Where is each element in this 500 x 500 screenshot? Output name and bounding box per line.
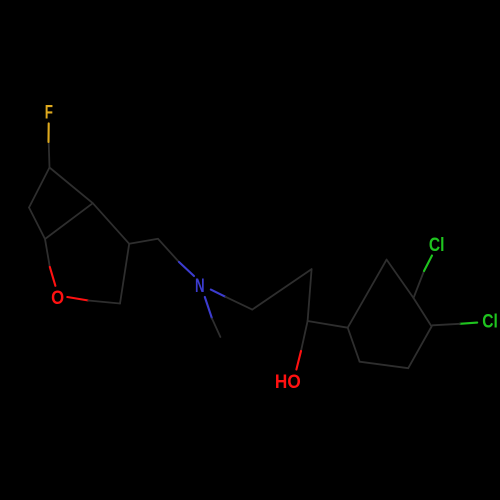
bond N-CH3 blue half	[205, 297, 212, 319]
bond Ccarbinol-OH dark half	[301, 321, 308, 351]
bond C7a-O red half	[50, 267, 56, 286]
bond CH2n-N dark half	[158, 239, 179, 262]
bond N-CH2a dark half	[226, 297, 253, 310]
bond V4-Cl1 green half	[424, 256, 432, 272]
bond Ccarbinol-OH red half	[296, 351, 301, 370]
svg-text:F: F	[45, 102, 53, 124]
ring R6-R1	[348, 328, 360, 362]
bond F-C5 gold half	[47, 123, 49, 142]
bond CH2n-N blue half	[179, 262, 194, 276]
bond O-C2 red half	[67, 297, 88, 301]
bond V5-Cl2 dark half	[433, 324, 460, 326]
bond C4-C3	[93, 203, 129, 244]
bond O-C2 dark half	[88, 301, 120, 304]
bond CH2b-Ccarbinol	[308, 269, 312, 321]
bond C5-C6	[29, 168, 50, 208]
svg-text:HO: HO	[275, 371, 301, 393]
bond C7a-O dark half	[45, 239, 50, 267]
bond C3-CH2n	[129, 239, 158, 244]
bond C6-C7a	[29, 208, 45, 240]
bond C3-C2	[120, 244, 129, 304]
svg-text:N: N	[195, 275, 205, 297]
svg-text:Cl: Cl	[429, 234, 445, 256]
bond C5-C4	[50, 168, 93, 204]
ring R5-R6	[360, 362, 409, 369]
bond C3a-C7a	[45, 203, 93, 239]
bond N-CH3 dark half	[212, 319, 220, 338]
ring V4-V5	[414, 298, 432, 327]
bond N-CH2a blue half	[211, 290, 226, 297]
bond V5-Cl2 green half	[460, 323, 477, 324]
ring Rtop-V4	[387, 260, 414, 298]
bond V4-Cl1 dark half	[414, 271, 425, 298]
bond CH2a-CH2b	[252, 269, 311, 310]
ring V5-R5	[408, 327, 431, 369]
bond F-C5 dark half	[48, 142, 51, 168]
ring R1-R2	[348, 260, 387, 328]
bond Ccarbinol-R1	[308, 321, 348, 328]
svg-text:O: O	[51, 287, 64, 309]
svg-text:Cl: Cl	[482, 311, 498, 333]
